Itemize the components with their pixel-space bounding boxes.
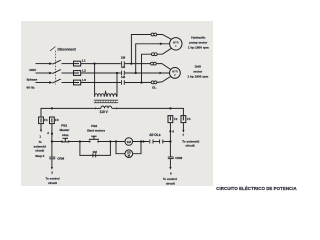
disconnect label pointer <box>50 47 55 51</box>
wire coil out <box>133 141 149 143</box>
wire F3 down to rung <box>51 124 53 157</box>
wire 110V rail right <box>112 108 183 115</box>
wire F2 down to rung <box>169 123 171 142</box>
fuse L2 element <box>74 72 79 74</box>
wire motor1 top lead <box>157 35 172 40</box>
transformer primary drop from L1 <box>94 64 96 97</box>
contact OL a <box>150 140 153 144</box>
disconnect switch blade 2 <box>52 70 61 74</box>
svg-text:circuit: circuit <box>185 144 194 148</box>
wire rung PB2 to coil <box>98 141 125 143</box>
wire row3 fuse to 1M <box>81 82 121 84</box>
node rail F2 tap <box>169 107 171 109</box>
svg-text:110 V: 110 V <box>100 110 109 114</box>
wire 110V rail left <box>41 108 101 117</box>
svg-text:Start motors: Start motors <box>87 128 105 132</box>
svg-text:circuit: circuit <box>166 181 175 185</box>
overload heater OL motor2 top <box>151 62 157 65</box>
svg-text:2: 2 <box>51 171 53 175</box>
wire CRM coil to rejoin <box>133 142 141 154</box>
arrow supply L3 <box>49 81 52 84</box>
svg-text:1M: 1M <box>121 55 126 59</box>
arrow below CRM right <box>169 167 171 170</box>
node rail F3 tap <box>51 107 53 109</box>
transformer secondary terminal tick left <box>94 107 96 109</box>
wire row2 1M to motor2 <box>125 72 170 74</box>
svg-text:60 Hz: 60 Hz <box>27 86 36 90</box>
fuse F2 <box>168 116 173 123</box>
arrow motor2 middle lead <box>160 72 163 75</box>
svg-text:2: 2 <box>47 131 49 135</box>
svg-text:All OLs: All OLs <box>149 133 161 137</box>
svg-text:CIRCUITO ELÉCTRICO DE POTENCIA: CIRCUITO ELÉCTRICO DE POTENCIA <box>216 186 297 191</box>
fuse L1 <box>74 61 81 66</box>
fuse L1 element <box>74 63 79 65</box>
contact 1M row1 <box>122 61 125 66</box>
svg-text:circuit: circuit <box>48 181 57 185</box>
transformer primary drop from L2 <box>116 73 118 97</box>
svg-text:L2: L2 <box>82 68 86 72</box>
svg-text:F2: F2 <box>174 117 178 121</box>
wire motor1 bottom lead <box>157 48 171 54</box>
svg-text:M: M <box>128 154 130 158</box>
svg-text:6: 6 <box>172 129 174 133</box>
wire motor2 bottom lead <box>142 77 171 83</box>
node row1 transformer tap <box>93 62 95 64</box>
transformer T1 primary winding <box>95 92 117 97</box>
wire below F4 <box>182 123 184 131</box>
wire row2 fuse to 1M <box>81 72 121 74</box>
contact CRM left (capacitor bars) <box>49 157 55 159</box>
wire bus2 vertical <box>136 44 170 73</box>
svg-text:F4: F4 <box>187 117 191 121</box>
arrow below F1 <box>40 130 42 133</box>
contact OL b <box>160 140 163 144</box>
svg-text:1M: 1M <box>127 140 132 144</box>
pushbutton PB2 (NO start motors) <box>89 136 99 139</box>
fuse F1 <box>39 117 44 124</box>
svg-text:stop: stop <box>62 133 69 137</box>
motor MTR1 <box>170 38 182 50</box>
overload heater OL motor1 bottom <box>151 53 157 56</box>
wire CRM coil branch <box>116 142 125 154</box>
svg-text:7: 7 <box>182 133 184 137</box>
svg-text:1 hp 1800 rpm: 1 hp 1800 rpm <box>188 46 209 50</box>
svg-text:Drill: Drill <box>195 65 201 69</box>
svg-text:Step 0: Step 0 <box>35 154 44 158</box>
node row1 bus1 <box>130 62 132 64</box>
node wire2 marker <box>51 133 53 135</box>
wire rung PB1 to PB2 <box>69 141 90 143</box>
wire blade2 to fuse2 <box>62 72 74 74</box>
pushbutton PB1 (NC master stop) <box>61 138 69 142</box>
svg-text:MTR: MTR <box>172 70 178 74</box>
svg-text:PB1: PB1 <box>61 123 67 127</box>
node before OLs <box>142 140 144 142</box>
svg-text:1M: 1M <box>121 65 126 69</box>
contact CRM right (capacitor bars) <box>168 157 174 159</box>
fuse L3 <box>74 80 81 85</box>
arrow supply L2 <box>49 72 52 75</box>
arrow motor1 middle lead <box>160 43 163 46</box>
svg-text:Disconnect: Disconnect <box>58 48 77 52</box>
wire below CRM right <box>169 159 171 168</box>
wire row1 1M to bus <box>125 63 151 65</box>
svg-text:L1: L1 <box>82 58 86 62</box>
svg-text:1M: 1M <box>121 75 126 79</box>
fuse L3 element <box>74 82 79 84</box>
wire blade3 to fuse3 <box>62 82 74 84</box>
svg-text:CRM: CRM <box>57 156 64 160</box>
svg-text:MTR: MTR <box>173 41 179 45</box>
disconnect switch blade 3 <box>52 79 61 83</box>
coil 1M <box>125 138 133 146</box>
svg-text:Hydraulic: Hydraulic <box>191 36 205 40</box>
wire row1 fuse to 1M <box>81 63 121 65</box>
overload heater OL motor2 bottom <box>151 81 157 84</box>
disconnect mechanical link (dashed) <box>55 51 57 85</box>
disconnect switch blade 1 <box>52 60 61 64</box>
wire bus3 vertical <box>142 54 152 82</box>
svg-text:circuit: circuit <box>35 148 44 152</box>
node branch 1M aux left <box>79 140 81 142</box>
arrow supply L1 <box>49 62 52 65</box>
node wire6 marker <box>169 130 171 132</box>
wire OLs to right junction <box>163 141 171 143</box>
wire between OLs <box>153 141 160 143</box>
fuse F4 <box>181 116 186 123</box>
svg-text:440V: 440V <box>29 68 37 72</box>
svg-text:OL: OL <box>152 86 156 90</box>
svg-text:6: 6 <box>170 171 172 175</box>
node coil rejoin <box>140 140 142 142</box>
contact 1M aux <box>93 153 96 157</box>
transformer secondary terminal tick right <box>116 107 118 109</box>
wire supply line L3 in <box>36 82 51 84</box>
arrow below F4 <box>182 130 184 133</box>
overload heater OL motor1 top <box>151 33 157 36</box>
node 1M aux right <box>109 140 111 142</box>
contact 1M row3 <box>122 80 125 85</box>
svg-text:3phase: 3phase <box>27 78 38 82</box>
wire rung down through CRM <box>169 142 171 158</box>
contact 1M row2 <box>122 71 125 76</box>
fuse L2 <box>74 71 81 76</box>
svg-text:F3: F3 <box>55 118 59 122</box>
wire below F1 <box>40 124 42 130</box>
svg-text:F1: F1 <box>44 118 48 122</box>
svg-text:To control: To control <box>163 177 177 181</box>
node rung right junction <box>169 140 171 142</box>
arrow below CRM left <box>51 167 53 170</box>
wire row3 1M onward <box>125 82 142 84</box>
transformer T1 core hatching <box>95 100 116 103</box>
svg-text:motor: motor <box>193 70 203 74</box>
wire supply line L1 in <box>36 63 51 65</box>
node CRM branch left <box>115 140 117 142</box>
fuse F3 <box>50 117 55 124</box>
wire rung PB1 segment <box>52 141 62 143</box>
node row3 bus3 <box>140 81 142 83</box>
svg-text:pump motor: pump motor <box>189 41 208 45</box>
wire blade1 to fuse1 <box>62 63 74 65</box>
node row2 transformer tap <box>116 72 118 74</box>
motor MTR2 <box>170 68 181 79</box>
svg-text:1: 1 <box>39 134 41 138</box>
transformer T1 secondary winding <box>101 106 112 108</box>
wire below CRM left <box>51 159 53 168</box>
svg-text:CRM: CRM <box>175 156 182 160</box>
wire motor2 top lead <box>156 64 171 70</box>
wire bus1 vertical <box>131 35 151 64</box>
wire supply line L2 in <box>36 72 51 74</box>
svg-text:L3: L3 <box>82 78 86 82</box>
svg-text:1M: 1M <box>93 150 98 154</box>
svg-text:Master: Master <box>60 128 71 132</box>
coil CRM <box>125 150 133 158</box>
transformer T1 core <box>94 100 118 103</box>
svg-text:To control: To control <box>45 177 59 181</box>
svg-text:1 hp 1800 rpm: 1 hp 1800 rpm <box>187 75 208 79</box>
node row2 bus2 <box>135 72 137 74</box>
node rung left junction <box>51 140 53 142</box>
wire 1M aux branch <box>80 142 111 156</box>
scan background <box>21 21 213 186</box>
